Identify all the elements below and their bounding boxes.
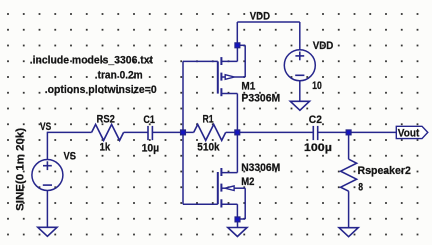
- svg-text:.include models_3306.txt: .include models_3306.txt: [30, 54, 154, 66]
- svg-text:M2: M2: [241, 176, 254, 188]
- svg-text:10µ: 10µ: [142, 142, 160, 154]
- svg-text:RS2: RS2: [97, 113, 115, 125]
- svg-text:Vout: Vout: [398, 127, 420, 139]
- svg-text:VDD: VDD: [250, 11, 270, 23]
- svg-text:100µ: 100µ: [304, 142, 332, 154]
- svg-text:.tran 0.2m: .tran 0.2m: [95, 70, 143, 82]
- svg-text:10: 10: [312, 80, 322, 92]
- svg-text:SINE(0 1m 20k): SINE(0 1m 20k): [15, 128, 27, 211]
- svg-text:510k: 510k: [197, 142, 220, 154]
- svg-text:R1: R1: [203, 114, 214, 126]
- svg-text:8: 8: [358, 181, 363, 193]
- svg-text:VS: VS: [64, 151, 77, 163]
- svg-text:VS: VS: [40, 121, 51, 133]
- svg-text:Rspeaker2: Rspeaker2: [358, 165, 411, 177]
- svg-text:.options plotwinsize=0: .options plotwinsize=0: [45, 84, 157, 96]
- svg-text:P3306M: P3306M: [241, 92, 280, 104]
- svg-text:C1: C1: [143, 114, 155, 126]
- svg-text:1k: 1k: [100, 141, 112, 153]
- svg-text:C2: C2: [309, 114, 322, 126]
- svg-text:M1: M1: [241, 81, 255, 93]
- svg-text:N3306M: N3306M: [241, 162, 280, 174]
- svg-text:VDD: VDD: [313, 40, 334, 52]
